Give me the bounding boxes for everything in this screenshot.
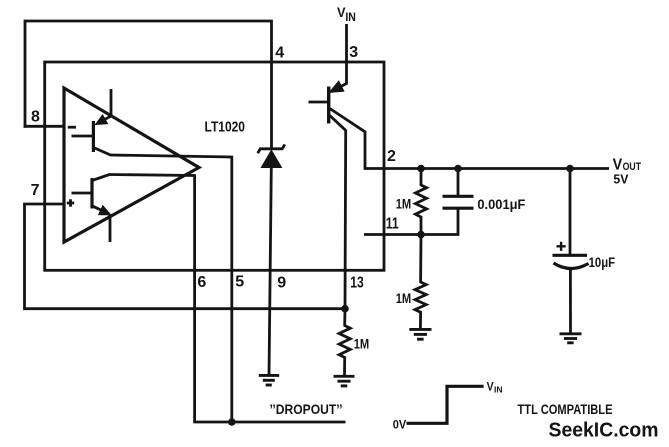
svg-text:4: 4	[275, 45, 284, 62]
svg-text:11: 11	[386, 215, 399, 232]
junction node C1 top	[454, 165, 462, 173]
wire: pin 11 row	[364, 209, 458, 235]
Q3 collector diagonal 1	[330, 109, 365, 132]
svg-text:1M: 1M	[396, 195, 412, 211]
wire: Q3 collector 1 to pin 2 output row	[365, 131, 609, 169]
zener diode D1 (reference)	[258, 144, 285, 167]
Q3 emitter arrowhead	[330, 82, 343, 92]
Q1 collector diagonal	[93, 148, 110, 156]
Q1 emitter vertical	[110, 89, 113, 117]
plus input symbol	[67, 199, 74, 206]
C1 top plate	[443, 195, 474, 198]
svg-text:7: 7	[31, 182, 40, 199]
C2 bottom lead	[569, 269, 572, 333]
svg-text:IN: IN	[345, 10, 356, 24]
ground G3 (R3)	[409, 329, 431, 339]
svg-text:TTL COMPATIBLE: TTL COMPATIBLE	[518, 402, 613, 417]
Q1 base lead	[72, 135, 93, 138]
C2 top plate	[553, 254, 588, 257]
Q1 base bar	[92, 121, 95, 152]
wire: feedback loop pin 4 to pin 8	[25, 21, 272, 150]
resistor R3 1M (lower divider)	[415, 235, 426, 330]
Q3 collector diagonal 2	[330, 116, 346, 131]
svg-text:5V: 5V	[613, 172, 628, 187]
capacitor C1 0.001uF	[443, 169, 474, 209]
D1 anode triangle	[261, 150, 281, 167]
svg-text:13: 13	[350, 275, 364, 292]
wire: pin 7 input	[23, 203, 64, 206]
IC outline U1 LT1020	[45, 62, 384, 270]
svg-text:0.001μF: 0.001μF	[477, 196, 525, 212]
Q3 base lead	[309, 101, 328, 104]
resistor R2 1M (pin 13 to ground)	[339, 309, 350, 375]
D1 cathode bar with zener hooks	[258, 144, 285, 153]
junction node C2 top	[566, 165, 574, 173]
junction node on dropout line	[228, 418, 236, 426]
minus input symbol	[68, 126, 76, 129]
Q2 base bar	[90, 178, 93, 209]
ground G2 (R2)	[334, 376, 355, 386]
wire: pin 8 input	[24, 125, 64, 128]
junction node R1 bottom	[417, 231, 425, 239]
svg-text:1M: 1M	[396, 290, 412, 306]
C1 bottom plate	[443, 207, 474, 210]
junction node R1 top	[417, 165, 425, 173]
junction node pin13/R2	[341, 305, 349, 313]
C2 top lead	[569, 169, 572, 256]
Q1 emitter arrowhead	[96, 116, 107, 125]
transistor Q1 (upper PNP inside comparator)	[72, 89, 112, 155]
Q2 emitter arrowhead	[99, 206, 110, 214]
svg-text:IN: IN	[494, 386, 503, 395]
svg-text:LT1020: LT1020	[205, 119, 246, 136]
Q3 emitter diagonal	[335, 84, 347, 90]
transistor Q2 (lower NPN inside comparator)	[72, 175, 111, 243]
svg-text:0V: 0V	[393, 418, 407, 432]
ground G4 (C2)	[560, 334, 582, 343]
resistor R1 1M (upper divider)	[415, 169, 426, 235]
wire: pin 7 around to divider junction node	[25, 204, 346, 309]
ground G1 (pin 9)	[259, 375, 279, 385]
C2 curved plate	[554, 263, 589, 269]
svg-text:8: 8	[31, 109, 40, 126]
svg-text:V: V	[487, 381, 494, 393]
Q2 collector diagonal	[92, 175, 110, 181]
svg-text:2: 2	[387, 148, 396, 165]
svg-text:6: 6	[197, 274, 206, 291]
svg-text:1M: 1M	[354, 335, 370, 351]
wire: Q1 collector to pin 5 and dropout line	[110, 155, 232, 422]
wire: VIN input	[345, 24, 348, 85]
wire: zener anode to pin 9 and ground	[269, 168, 271, 376]
svg-text:SeekIC.com: SeekIC.com	[549, 419, 659, 442]
svg-text:’’DROPOUT’’: ’’DROPOUT’’	[270, 401, 343, 417]
svg-text:5: 5	[235, 273, 244, 290]
transistor Q3 (pass PNP)	[309, 82, 366, 132]
C2 plus sign	[557, 242, 566, 251]
Q2 emitter diagonal	[92, 206, 105, 212]
Q3 base bar	[327, 87, 330, 124]
svg-text:3: 3	[349, 44, 358, 61]
svg-text:10μF: 10μF	[589, 254, 616, 270]
C1 top lead	[457, 169, 460, 197]
wire: Q2 collector to pin 6 and dropout line	[109, 175, 346, 423]
Q2 emitter vertical	[109, 214, 112, 242]
TTL waveform step	[407, 386, 484, 423]
wire: Q3 collector 2 down through pin 13	[344, 130, 348, 309]
capacitor C2 10uF electrolytic	[553, 169, 589, 334]
Q1 emitter diagonal	[100, 116, 112, 122]
op-amp comparator triangle	[64, 88, 199, 242]
svg-text:9: 9	[277, 274, 286, 291]
Q2 base lead	[72, 192, 91, 195]
